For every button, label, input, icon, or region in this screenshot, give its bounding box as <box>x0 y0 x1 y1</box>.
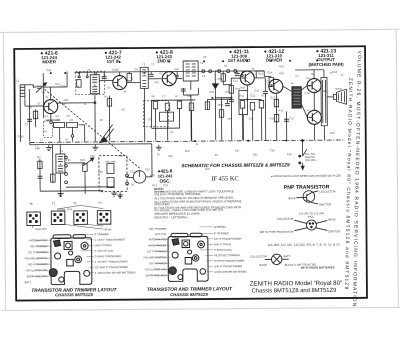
svg-text:IF TRIMMER: IF TRIMMER <box>214 232 229 235</box>
svg-text:R6: R6 <box>151 94 155 98</box>
svg-text:121-309, 121-310, 121-311, 421: 121-309, 121-310, 121-311, 421-6, 7, 8, … <box>268 242 340 247</box>
svg-text:OSC TRIMMER: OSC TRIMMER <box>30 245 48 248</box>
svg-text:C5: C5 <box>107 86 111 90</box>
svg-text:C23: C23 <box>98 170 103 174</box>
svg-text:VOLUME CONTROL: VOLUME CONTROL <box>24 257 48 260</box>
svg-text:BATT: BATT <box>25 281 32 284</box>
svg-text:T1: T1 <box>52 201 56 205</box>
svg-text:47K: 47K <box>154 80 159 84</box>
svg-text:EMITTER: EMITTER <box>328 229 340 233</box>
svg-text:R14: R14 <box>279 64 284 68</box>
svg-text:OSCILLATOR COIL: OSCILLATOR COIL <box>26 269 49 272</box>
svg-text:T2: T2 <box>73 201 77 205</box>
svg-text:R2: R2 <box>45 114 49 118</box>
svg-text:C29: C29 <box>287 152 292 156</box>
svg-text:1K: 1K <box>123 89 126 93</box>
svg-text:R9: R9 <box>228 117 232 121</box>
svg-text:ANTENNA COIL: ANTENNA COIL <box>29 239 48 242</box>
svg-text:ZENITH RADIO Model “Royal 80”: ZENITH RADIO Model “Royal 80” <box>250 280 343 288</box>
svg-text:4. 2ND AUDIO DRIVER BATTERIES: 4. 2ND AUDIO DRIVER BATTERIES <box>95 271 136 274</box>
svg-text:MIXER: MIXER <box>42 59 57 64</box>
svg-text:BASE: BASE <box>328 217 335 221</box>
svg-text:INCL.: INCL. <box>308 215 315 219</box>
svg-text:R15: R15 <box>270 116 275 120</box>
svg-text:R5: R5 <box>121 108 125 112</box>
svg-text:R13: R13 <box>279 71 284 75</box>
svg-text:OSC TRIMMER: OSC TRIMMER <box>149 262 167 265</box>
svg-text:C11: C11 <box>233 79 238 83</box>
svg-text:R1: R1 <box>75 84 79 88</box>
svg-text:VOLUME: VOLUME <box>105 160 116 164</box>
svg-text:TUNING CONDENSER: TUNING CONDENSER <box>95 255 121 258</box>
svg-text:OUTPUT TRANSFORMER: OUTPUT TRANSFORMER <box>214 260 244 263</box>
svg-text:C6: C6 <box>134 67 138 71</box>
svg-text:2.2K: 2.2K <box>304 91 310 95</box>
svg-text:C2: C2 <box>61 84 65 88</box>
svg-text:R3: R3 <box>56 114 60 118</box>
svg-text:R20: R20 <box>150 173 155 177</box>
svg-text:BASE: BASE <box>260 263 267 267</box>
svg-text:10K: 10K <box>174 67 179 71</box>
svg-text:OSC.: OSC. <box>159 179 170 184</box>
svg-text:2ND IF TRANS: 2ND IF TRANS <box>95 244 112 247</box>
svg-text:AVC: AVC <box>205 167 210 171</box>
svg-text:AUDIO DRIVER BATTERIES: AUDIO DRIVER BATTERIES <box>214 271 247 274</box>
svg-text:C1A: C1A <box>55 82 60 86</box>
svg-text:BATT: BATT <box>284 254 291 258</box>
svg-text:(ON VOL): (ON VOL) <box>305 158 317 162</box>
svg-text:C24: C24 <box>163 183 168 187</box>
svg-text:C15: C15 <box>249 116 254 120</box>
svg-text:VOLUME CONTROL: VOLUME CONTROL <box>143 256 167 259</box>
svg-text:C12: C12 <box>250 93 255 97</box>
svg-text:EARPHONE JACK: EARPHONE JACK <box>27 275 48 278</box>
svg-text:C17: C17 <box>290 116 295 120</box>
svg-text:R18: R18 <box>80 158 85 162</box>
svg-text:1K: 1K <box>100 118 103 122</box>
svg-text:R21: R21 <box>152 183 157 187</box>
svg-text:1ST IF TRIMMER: 1ST IF TRIMMER <box>147 250 167 253</box>
svg-text:CR1: CR1 <box>217 77 223 81</box>
svg-text:R7: R7 <box>175 94 179 98</box>
svg-text:C22: C22 <box>130 169 135 173</box>
svg-text:R16: R16 <box>330 131 335 135</box>
svg-text:C7: C7 <box>162 94 166 98</box>
svg-text:.05: .05 <box>170 130 174 134</box>
svg-text:C18: C18 <box>332 70 337 74</box>
svg-text:C13: C13 <box>254 88 259 92</box>
svg-text:R17: R17 <box>37 155 42 159</box>
svg-text:B-: B- <box>196 142 199 146</box>
svg-text:IF 455 KC: IF 455 KC <box>211 175 238 182</box>
svg-text:DRIVER: DRIVER <box>266 57 283 62</box>
svg-text:CR1: CR1 <box>215 69 221 73</box>
svg-text:R12: R12 <box>261 93 266 97</box>
svg-text:T3: T3 <box>98 201 102 205</box>
svg-text:C28: C28 <box>270 148 275 152</box>
svg-text:C26: C26 <box>168 154 173 158</box>
svg-text:C2: C2 <box>28 105 32 109</box>
svg-text:C14: C14 <box>267 70 272 74</box>
svg-text:R4: R4 <box>77 75 81 79</box>
svg-text:3. OSC OF COIL: 3. OSC OF COIL <box>95 250 115 253</box>
svg-text:EMITTER: EMITTER <box>319 202 331 206</box>
svg-text:C3: C3 <box>25 122 29 126</box>
svg-text:220K: 220K <box>217 103 223 107</box>
svg-text:R3: R3 <box>70 118 74 122</box>
svg-text:C20: C20 <box>66 158 71 162</box>
svg-text:C3: C3 <box>67 114 71 118</box>
svg-text:C8: C8 <box>187 94 191 98</box>
svg-text:1ST IF: 1ST IF <box>107 59 120 64</box>
svg-text:1ST IF TRANSFORMER: 1ST IF TRANSFORMER <box>214 238 242 241</box>
svg-text:R2: R2 <box>57 118 61 122</box>
svg-text:PILOT/OSC TRIMMER: PILOT/OSC TRIMMER <box>214 254 240 257</box>
svg-text:(MATCHED PAIR): (MATCHED PAIR) <box>309 62 345 67</box>
svg-text:100: 100 <box>322 89 327 93</box>
svg-text:R19: R19 <box>90 154 95 158</box>
svg-text:.02: .02 <box>115 68 119 72</box>
svg-text:RED DOT: RED DOT <box>35 227 47 231</box>
svg-text:OSCILLATOR COIL: OSCILLATOR COIL <box>145 268 168 271</box>
svg-text:SPKR: SPKR <box>335 87 342 91</box>
svg-text:R10: R10 <box>235 87 240 91</box>
svg-text:R11: R11 <box>239 94 244 98</box>
svg-text:2ND IF TRANS: 2ND IF TRANS <box>214 243 231 246</box>
svg-text:T5: T5 <box>29 202 33 206</box>
svg-text:1ST IF TRIMMER: 1ST IF TRIMMER <box>28 251 48 254</box>
svg-text:2N3: 2N3 <box>63 98 68 102</box>
svg-text:R9: R9 <box>224 64 228 68</box>
svg-text:2ND IF TRANSFORMER: 2ND IF TRANSFORMER <box>214 265 242 268</box>
svg-text:CHASSIS 8MT51Z9: CHASSIS 8MT51Z9 <box>170 292 208 297</box>
svg-text:.05: .05 <box>310 72 314 76</box>
svg-text:Chassis 8MT51Z8 and 8MT51Z9: Chassis 8MT51Z8 and 8MT51Z9 <box>252 288 337 295</box>
svg-text:1. 1ST IF TRANSFORMER: 1. 1ST IF TRANSFORMER <box>95 239 125 242</box>
svg-text:C25: C25 <box>145 167 150 171</box>
svg-text:C14: C14 <box>266 79 271 83</box>
svg-text:R9: R9 <box>225 90 229 94</box>
svg-text:ANT COIL: ANT COIL <box>155 233 167 236</box>
svg-text:R1: R1 <box>44 129 48 133</box>
svg-text:VOL: VOL <box>118 154 124 158</box>
svg-text:ANTENNA ROD: ANTENNA ROD <box>148 238 166 241</box>
svg-text:R11: R11 <box>258 71 263 75</box>
svg-text:CHASSIS 8MT51Z8: CHASSIS 8MT51Z8 <box>55 292 93 297</box>
svg-text:OSC TRIMMER: OSC TRIMMER <box>149 228 167 231</box>
svg-text:C27: C27 <box>235 149 240 153</box>
svg-text:R22: R22 <box>253 152 258 156</box>
svg-text:B+: B+ <box>215 153 219 157</box>
svg-text:1K: 1K <box>131 182 134 186</box>
svg-text:BASE: BASE <box>289 196 296 200</box>
svg-text:C1A: C1A <box>32 84 37 88</box>
svg-text:AVC: AVC <box>185 149 190 153</box>
svg-text:. . .IER IN TYPE TRANSISTOR: . . .IER IN TYPE TRANSISTOR <box>256 230 293 234</box>
svg-text:2. OUTPUT TRANSFORMER: 2. OUTPUT TRANSFORMER <box>95 260 128 263</box>
svg-text:R13: R13 <box>270 95 275 99</box>
svg-text:GND: GND <box>18 134 24 138</box>
svg-text:COLLECTOR: COLLECTOR <box>319 189 335 193</box>
svg-text:R10: R10 <box>240 86 245 90</box>
svg-text:EARPHONE JACK: EARPHONE JACK <box>146 274 167 277</box>
svg-text:C4: C4 <box>112 68 116 72</box>
svg-text:R15: R15 <box>278 108 283 112</box>
svg-text:● MOUNTED PLATES WHEN C29 CHAN: ● MOUNTED PLATES WHEN C29 CHANGE WITH C2… <box>271 174 341 179</box>
svg-text:SCHEMATIC FOR CHASSIS 8MT51Z8: SCHEMATIC FOR CHASSIS 8MT51Z8 & 8MT51Z9 <box>181 162 290 168</box>
svg-text:1ST AND IF TRANSFORMER: 1ST AND IF TRANSFORMER <box>95 266 128 269</box>
svg-text:IF TRIMMER: IF TRIMMER <box>94 233 109 236</box>
svg-text:WITH FRESH BATTERIES: WITH FRESH BATTERIES <box>301 265 335 269</box>
svg-text:WAVE MAGNET: WAVE MAGNET <box>148 244 167 247</box>
svg-text:C9: C9 <box>203 55 207 59</box>
svg-text:C10: C10 <box>209 90 214 94</box>
svg-text:COLLECTOR: COLLECTOR <box>250 254 266 258</box>
svg-text:TUNING GANG: TUNING GANG <box>214 249 232 252</box>
svg-text:DENOTES ↑ LETTERING.: DENOTES ↑ LETTERING. <box>154 215 188 219</box>
svg-text:COLLECTOR: COLLECTOR <box>277 217 293 221</box>
svg-text:ANTENNA: ANTENNA <box>214 226 226 229</box>
svg-text:SPKR: SPKR <box>104 227 111 231</box>
svg-text:2ND IF TRIMMER: 2ND IF TRIMMER <box>27 263 47 266</box>
svg-text:C8: C8 <box>148 117 152 121</box>
svg-text:C1B: C1B <box>46 68 51 72</box>
svg-text:R5: R5 <box>104 95 108 99</box>
